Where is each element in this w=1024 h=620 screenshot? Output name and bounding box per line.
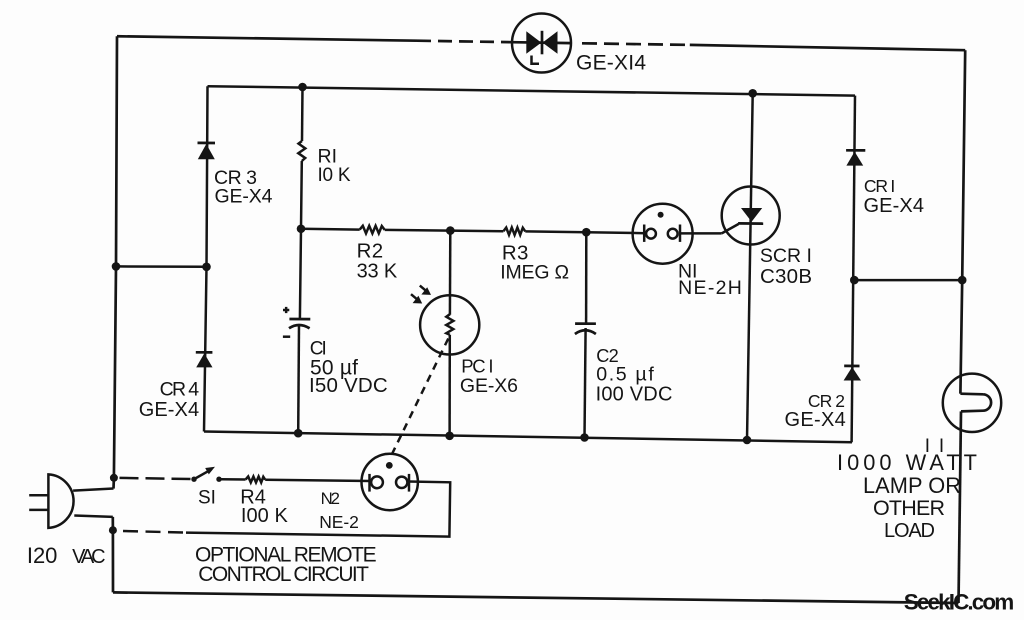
svg-text:GE-XI4: GE-XI4 (576, 52, 646, 75)
svg-text:C30B: C30B (760, 265, 812, 288)
svg-text:GE-X6: GE-X6 (460, 375, 518, 397)
svg-text:SeekIC.com: SeekIC.com (904, 590, 1015, 615)
svg-text:I0 K: I0 K (318, 165, 351, 186)
svg-text:R2: R2 (357, 240, 384, 263)
svg-text:OTHER: OTHER (873, 496, 945, 520)
svg-text:NE-2H: NE-2H (678, 277, 742, 299)
svg-text:GE-X4: GE-X4 (785, 409, 846, 431)
svg-text:PC I: PC I (461, 356, 493, 377)
svg-text:N2: N2 (321, 489, 340, 508)
svg-text:I20: I20 (27, 543, 58, 568)
svg-text:I00 VDC: I00 VDC (596, 384, 673, 406)
svg-text:IMEG Ω: IMEG Ω (500, 262, 569, 284)
svg-text:0.5 µf: 0.5 µf (596, 364, 654, 386)
svg-text:NE-2: NE-2 (319, 512, 359, 532)
svg-text:I50 VDC: I50 VDC (309, 374, 388, 397)
svg-text:GE-X4: GE-X4 (215, 186, 273, 208)
svg-text:33 K: 33 K (357, 261, 398, 283)
svg-text:GE-X4: GE-X4 (139, 399, 199, 421)
svg-text:CR 4: CR 4 (160, 379, 200, 401)
svg-text:CONTROL CIRCUIT: CONTROL CIRCUIT (198, 563, 369, 586)
svg-text:CR I: CR I (864, 176, 895, 196)
svg-text:GE-X4: GE-X4 (864, 195, 925, 217)
svg-text:VAC: VAC (72, 546, 106, 568)
svg-text:LOAD: LOAD (884, 520, 935, 542)
svg-text:SI: SI (198, 487, 216, 508)
svg-text:SCR I: SCR I (760, 245, 812, 267)
svg-text:LAMP OR: LAMP OR (863, 473, 961, 498)
svg-text:I000 WATT: I000 WATT (837, 450, 977, 475)
svg-text:I00 K: I00 K (241, 505, 289, 527)
